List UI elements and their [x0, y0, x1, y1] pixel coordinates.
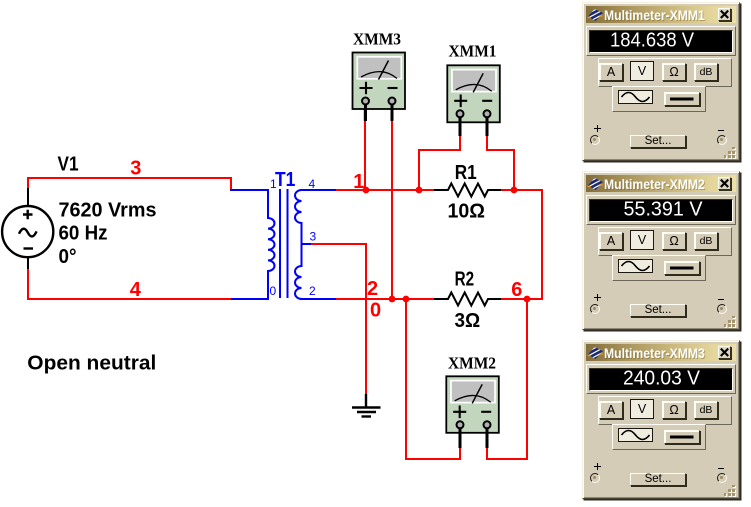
ground	[352, 394, 381, 417]
transformer T1 secondary top coil	[295, 190, 302, 244]
junction dot node 2 / XMM3 minus	[389, 296, 396, 303]
instrument panel XMM3	[582, 340, 740, 499]
wire: XMM1 minus red elbow to node1 right	[487, 136, 514, 190]
junction dot node 1 / XMM1 plus	[416, 187, 423, 194]
junction dot node 6 / XMM2 minus	[524, 296, 531, 303]
AC source V1	[2, 206, 53, 257]
wire: V1 top stub red part	[27, 177, 29, 188]
svg-text:0: 0	[270, 284, 277, 298]
junction dot node 1 / XMM3 plus	[363, 187, 370, 194]
wire: bottom red from V1 to transformer	[27, 298, 232, 300]
wire: XMM3 minus stub black	[391, 103, 393, 121]
svg-text:0: 0	[370, 300, 381, 322]
wire: node1 red right segment after R1	[501, 189, 543, 191]
svg-text:R1: R1	[455, 162, 477, 184]
svg-text:55.391 V: 55.391 V	[624, 200, 704, 221]
wire: XMM1 plus stub black	[459, 116, 461, 136]
transformer T1 secondary bottom coil	[295, 244, 302, 299]
multimeter symbol XMM2	[446, 376, 499, 448]
svg-text:V1: V1	[58, 154, 79, 176]
wire: node1 red left segment	[336, 189, 434, 191]
wire: blue primary bottom entry	[231, 298, 268, 300]
junction dot node 1 right / XMM1 minus	[511, 187, 518, 194]
svg-text:184.638 V: 184.638 V	[610, 31, 695, 52]
svg-text:0°: 0°	[59, 246, 77, 268]
svg-text:T1: T1	[275, 169, 295, 191]
svg-text:1: 1	[270, 177, 277, 191]
wire: XMM2 minus stub black	[486, 428, 488, 448]
svg-text:6: 6	[511, 279, 522, 301]
wire: pin4 blue stub	[301, 189, 338, 191]
transformer T1 core line left	[279, 189, 281, 298]
svg-text:60 Hz: 60 Hz	[59, 223, 108, 245]
wire: step down red	[230, 177, 232, 190]
instrument panel XMM2	[582, 171, 740, 330]
wire: XMM2 plus red elbow to node2	[406, 299, 460, 459]
wire: pin3 center-tap blue stub	[302, 243, 312, 245]
svg-text:2: 2	[309, 284, 316, 298]
svg-text:240.03 V: 240.03 V	[623, 369, 701, 390]
junction dot node 2 / XMM2 plus	[403, 296, 410, 303]
transformer T1 core line right	[287, 189, 289, 298]
svg-text:3: 3	[130, 157, 141, 179]
svg-text:XMM3: XMM3	[353, 30, 401, 49]
wire: XMM1 plus red elbow to node1	[419, 136, 460, 190]
multimeter symbol XMM3	[353, 53, 406, 122]
svg-text:1: 1	[353, 171, 364, 193]
svg-text:XMM1: XMM1	[449, 42, 497, 61]
transformer T1 primary coil	[268, 189, 275, 300]
wire: XMM3 plus red down to node1	[364, 121, 366, 190]
wire: XMM2 plus stub black	[459, 428, 461, 448]
resistor R1	[434, 184, 501, 197]
wire: blue primary top entry	[230, 189, 268, 191]
wire: red from node6 to right vertical	[527, 298, 543, 300]
wire: top red from V1 to step	[27, 177, 231, 179]
svg-text:3: 3	[310, 230, 317, 244]
wire: XMM3 minus red down to node2	[391, 121, 393, 299]
wire: V1 bottom stub black part	[27, 257, 29, 269]
svg-text:2: 2	[367, 278, 378, 300]
svg-text:10Ω: 10Ω	[448, 201, 486, 223]
wire: right vertical red R1 to node6	[541, 189, 543, 299]
wire: V1 top stub black part	[27, 188, 29, 207]
svg-text:3Ω: 3Ω	[455, 310, 481, 332]
svg-text:4: 4	[130, 279, 142, 301]
multimeter symbol XMM1	[447, 65, 500, 136]
wire: XMM2 minus red elbow to node6	[487, 299, 527, 459]
svg-text:4: 4	[309, 177, 316, 191]
svg-text:Open neutral: Open neutral	[27, 353, 156, 375]
wire: V1 bottom stub red part	[27, 269, 29, 300]
wire: XMM3 plus stub black	[364, 103, 366, 121]
wire: node2 red right segment after R2	[501, 298, 527, 300]
resistor R2	[434, 293, 501, 306]
wire: XMM1 minus stub black	[486, 116, 488, 136]
wire: center tap red to ground column	[311, 243, 367, 245]
wire: node2 red left segment	[336, 298, 434, 300]
wire: ground vertical red (net 0)	[365, 244, 367, 395]
wire: pin2 blue stub	[301, 298, 338, 300]
svg-text:XMM2: XMM2	[448, 354, 496, 373]
svg-text:R2: R2	[455, 269, 475, 291]
instrument panel XMM1	[582, 2, 740, 161]
svg-text:7620 Vrms: 7620 Vrms	[59, 200, 157, 222]
